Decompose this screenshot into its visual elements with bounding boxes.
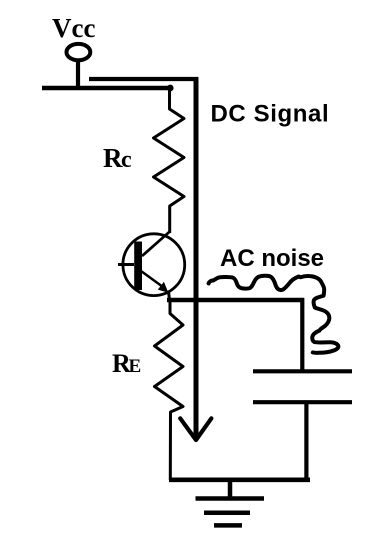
svg-text:c: c [121, 147, 132, 173]
svg-text:E: E [129, 356, 142, 377]
svg-text:R: R [103, 143, 123, 173]
svg-text:AC noise: AC noise [220, 245, 324, 272]
svg-text:DC Signal: DC Signal [211, 101, 330, 128]
svg-text:Vcc: Vcc [52, 13, 95, 43]
